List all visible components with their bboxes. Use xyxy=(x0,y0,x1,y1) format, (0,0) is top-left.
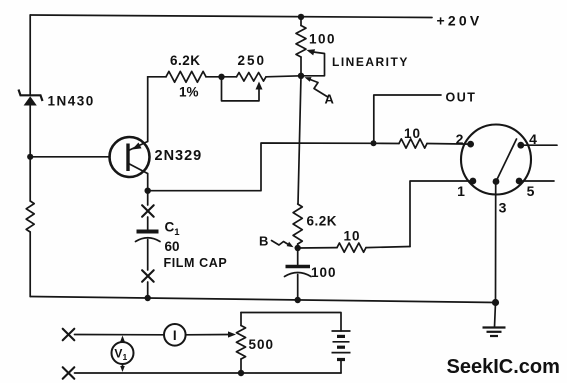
node pot bottom junction xyxy=(238,370,244,376)
wire node A down to 6.2K xyxy=(298,76,301,204)
wire left supply branch xyxy=(29,15,31,297)
resistor R1 6.2K 1% xyxy=(148,71,222,82)
wire OUT stub xyxy=(374,95,441,143)
capacitor C2 100 xyxy=(285,248,312,300)
svg-text:I: I xyxy=(173,328,177,343)
node ground junction xyxy=(492,299,499,306)
zener diode 1N430 xyxy=(19,90,43,106)
node junction 6.2K/250 xyxy=(218,74,224,80)
capacitor C1 60 FILM CAP xyxy=(136,191,161,298)
svg-text:SeekIC.com: SeekIC.com xyxy=(447,356,560,378)
node A arrow+label xyxy=(305,77,335,106)
wire lower test lead xyxy=(75,372,342,374)
svg-text:3: 3 xyxy=(499,200,507,216)
wire collector drop xyxy=(147,174,149,191)
node A junction xyxy=(298,73,304,79)
node junction OUT xyxy=(371,140,377,146)
wire pin3 to ground rail xyxy=(495,182,497,303)
svg-text:500: 500 xyxy=(249,337,275,352)
wire upper test lead xyxy=(75,331,237,337)
node junction cap to rail xyxy=(295,297,301,303)
node B junction xyxy=(295,245,301,251)
svg-text:250: 250 xyxy=(238,53,267,68)
svg-text:1N430: 1N430 xyxy=(48,94,95,109)
pin 1 xyxy=(457,178,476,199)
svg-text:+20V: +20V xyxy=(437,13,483,29)
svg-text:100: 100 xyxy=(311,265,337,280)
resistor R5 10 to pin2 xyxy=(374,139,471,148)
node junction top rail to 100 pot xyxy=(298,14,304,20)
meter I xyxy=(164,324,186,346)
wire pin4 out xyxy=(524,144,557,146)
svg-text:10: 10 xyxy=(344,229,361,244)
pin 5 xyxy=(516,178,535,199)
connector J1 socket circle xyxy=(461,125,531,195)
transistor Q1 2N329 xyxy=(110,137,150,177)
resistor R4 6.2K vertical xyxy=(293,204,302,244)
svg-text:6.2K: 6.2K xyxy=(170,53,201,68)
ground symbol xyxy=(483,303,506,337)
pin 4 xyxy=(517,131,537,149)
node base junction on left branch xyxy=(27,154,33,160)
battery B1 xyxy=(332,331,351,373)
wire base xyxy=(30,156,110,158)
potentiometer R2 250 xyxy=(222,73,302,101)
wire pot top to battery xyxy=(241,313,341,332)
wire pin5 out xyxy=(523,180,555,182)
resistor R6 10 from node B xyxy=(298,243,410,252)
pin 3 xyxy=(493,178,507,215)
svg-text:A: A xyxy=(325,92,335,107)
wire riser to pin1 xyxy=(410,181,473,247)
svg-text:5: 5 xyxy=(527,183,535,199)
svg-text:1: 1 xyxy=(457,183,465,199)
svg-text:OUT: OUT xyxy=(446,91,477,105)
resistor left unlabeled xyxy=(26,201,34,232)
wire collector to out row xyxy=(148,143,374,191)
node collector junction xyxy=(145,188,151,194)
meter V1 xyxy=(112,336,134,373)
terminal X lower xyxy=(63,367,75,379)
node B arrow+label xyxy=(259,234,294,249)
potentiometer R3 100 LINEARITY xyxy=(296,17,325,76)
svg-text:6.2K: 6.2K xyxy=(307,214,338,229)
terminal X upper xyxy=(63,329,75,341)
svg-text:FILM CAP: FILM CAP xyxy=(164,256,228,270)
wire bottom ground rail xyxy=(30,297,495,303)
potentiometer R7 500 xyxy=(236,313,245,374)
svg-text:2N329: 2N329 xyxy=(155,148,203,164)
svg-text:B: B xyxy=(259,234,268,249)
wire +20V top rail xyxy=(30,15,432,18)
switch wiper inside connector xyxy=(496,139,517,182)
wire emitter riser to 6.2K xyxy=(147,77,149,142)
svg-text:1%: 1% xyxy=(179,85,199,100)
svg-text:60: 60 xyxy=(165,239,180,254)
svg-text:10: 10 xyxy=(404,126,421,141)
pin 2 xyxy=(456,131,474,148)
svg-text:100: 100 xyxy=(309,32,336,47)
svg-text:LINEARITY: LINEARITY xyxy=(332,55,409,69)
node junction C1 to rail xyxy=(145,295,151,301)
svg-text:2: 2 xyxy=(456,131,464,147)
